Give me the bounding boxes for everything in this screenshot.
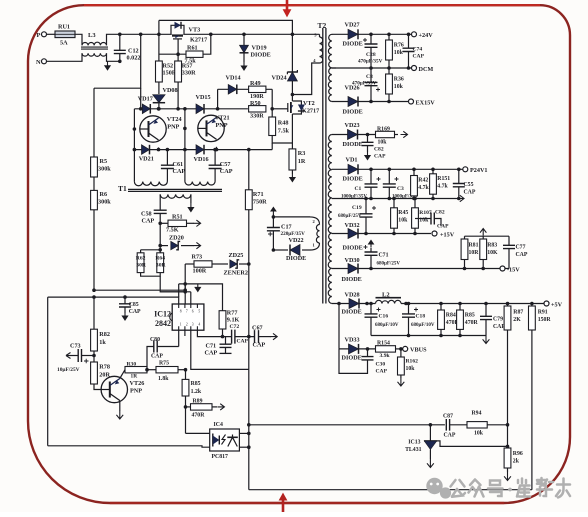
svg-text:470R: 470R [192,413,206,419]
resistor R162 10k [400,349,402,357]
svg-text:C55: C55 [464,182,474,188]
capacitor C67 CAP [255,330,259,343]
terminal VBUS [396,348,401,350]
T1 winding a [134,182,167,186]
wire L3 top to main rail [107,34,120,45]
capacitor C12 0.022 [119,34,121,50]
svg-text:680µF/25V: 680µF/25V [338,214,362,219]
capacitor C28 470uF/35V [370,34,372,44]
arrow after R89 [217,404,224,410]
svg-text:R57: R57 [182,63,193,70]
svg-text:2K: 2K [513,317,521,323]
resistor R64 30R [157,253,164,273]
transistor VT2 K2717 (MOSFET) [292,101,301,114]
svg-text:3.9k: 3.9k [380,353,391,359]
svg-text:150R: 150R [538,317,552,323]
wire R6 to IC supply [93,210,95,290]
resistor R51 7.5K [168,220,187,226]
svg-text:7.5K: 7.5K [166,227,179,234]
svg-text:DIODE: DIODE [343,176,363,183]
ground at T1 feedback [190,203,192,208]
EX15V rectifier diode VD26 DIODE [332,101,409,103]
arrow below R96 [507,468,509,472]
svg-text:3: 3 [192,323,194,327]
svg-text:VD32: VD32 [345,222,360,229]
resistor R30 1R [125,367,147,373]
+24V rectifier diode VD27 DIODE [332,33,412,35]
wire fuse to L3 [75,34,82,45]
resistor R85 470R [459,304,461,311]
capacitor C8 470uF/35V [370,68,372,82]
IC bottom wire with C72 C67 [197,330,231,336]
svg-text:C17: C17 [281,224,292,231]
svg-text:CAP: CAP [173,168,186,175]
capacitor C3 1000uF/35V [388,169,390,184]
wire +5V tap to VD33 [338,304,340,349]
capacitor C72 CAP [232,330,235,344]
resistor R85b 1.2k [182,379,189,396]
svg-text:R94: R94 [472,411,482,417]
wire drive to R71 [248,150,250,370]
resistor R75 1.8k [156,367,178,373]
diode VD19 snubber [243,34,245,45]
svg-text:L3: L3 [88,32,96,39]
resistor R94 10k [467,422,487,428]
watermark text 公众号·崔帮办 [451,478,571,498]
svg-text:CAP: CAP [444,433,456,439]
svg-text:8: 8 [180,310,182,314]
terminal +24V [412,32,417,37]
wire main rail to R5 feed [94,34,141,88]
svg-text:0.022: 0.022 [127,55,141,62]
resistor R42 4.7k [413,169,415,175]
svg-text:PNP: PNP [167,124,179,131]
svg-text:R85: R85 [465,313,475,319]
svg-text:6: 6 [192,310,194,314]
svg-text:5A: 5A [60,40,68,47]
svg-text:7: 7 [186,310,188,314]
svg-text:EX15V: EX15V [416,99,436,106]
svg-text:330R: 330R [182,70,196,77]
svg-text:C30: C30 [376,362,386,368]
svg-text:C80: C80 [150,337,160,343]
watermark logo [426,478,451,499]
svg-text:CAP: CAP [129,309,141,315]
terminal DCM [412,66,417,71]
return wire R62 R64 to IC [141,273,161,277]
svg-text:4.7k: 4.7k [418,185,429,191]
svg-text:CAP: CAP [237,339,249,345]
svg-text:C77: C77 [516,245,526,251]
wire R73 to IC box [184,264,186,284]
wire L3 bottom to C12 [107,53,120,61]
svg-text:C73: C73 [70,343,81,350]
resistor R57 330R [177,54,179,61]
T2 secondary winding lower [328,135,332,304]
resistor R6 300k [93,177,95,190]
svg-text:R89: R89 [193,399,203,405]
svg-text:DIODE: DIODE [343,41,363,48]
arrow after C67 [270,333,277,339]
IC12 inner loop [179,284,223,311]
svg-text:P24V1: P24V1 [470,167,488,174]
transistor VT24 PNP [140,116,166,142]
svg-text:R169: R169 [377,127,390,133]
svg-text:10k: 10k [406,366,416,372]
svg-text:VD1: VD1 [346,157,358,164]
svg-text:R6: R6 [100,191,108,198]
svg-text:CAP: CAP [493,324,505,330]
svg-text:30R: 30R [136,263,147,269]
svg-text:1R: 1R [298,158,306,165]
capacitor C71 CAP at IC [225,337,227,345]
diode VD21 [142,145,150,155]
resistor R49 190R [249,86,266,92]
ground below R162 [400,375,402,378]
svg-text:VD19: VD19 [252,45,267,52]
diode VD16 [196,145,204,155]
transistor VT3 K2717 (MOSFET) [171,25,184,34]
svg-text:R84: R84 [446,313,456,319]
svg-text:VD16: VD16 [194,156,209,163]
svg-text:TL431: TL431 [405,447,422,453]
resistor R78 20R [91,362,98,384]
svg-text:C85: C85 [129,302,139,308]
svg-text:IC13: IC13 [408,440,420,446]
wire VT3 gate to R61 [177,39,179,54]
resistor R3 1R [289,149,296,170]
svg-text:CAP: CAP [464,190,476,196]
arrow above C17 [272,210,274,215]
resistor R81 10R [464,236,466,239]
capacitor C57 CAP [214,150,216,166]
diode VD32 DIODE [332,233,431,235]
svg-text:R49: R49 [250,80,261,87]
terminal -15V [500,266,505,271]
svg-text:C82: C82 [374,147,384,153]
svg-text:DIODE: DIODE [342,276,362,283]
svg-text:C82: C82 [435,210,445,216]
capacitor C77 CAP [508,236,510,245]
terminal +15V [432,231,437,236]
wire R57 down to cell wire [177,82,179,109]
svg-text:2: 2 [186,323,188,327]
svg-text:VD15: VD15 [196,94,211,101]
svg-text:ZD20: ZD20 [169,235,184,242]
arrow after R169 [395,134,399,136]
capacitor C74 CAP [408,34,410,48]
drive wire VD14 R49 [218,88,273,90]
capacitor C17 220uF/35V [272,214,274,228]
resistor R52 150R [156,61,163,82]
resistor R83 10K [482,236,484,239]
svg-text:R75: R75 [159,360,169,366]
svg-text:2k: 2k [513,459,520,465]
resistor R89 470R [191,404,213,410]
wire N to L3 bottom [47,53,83,61]
resistor R87 2K [507,304,509,307]
svg-text:VBUS: VBUS [410,347,427,354]
capacitor C61 CAP [166,150,168,166]
return rail with arrow [332,198,456,200]
capacitor C73 10uF/25V [93,351,95,362]
svg-text:-15V: -15V [507,266,520,273]
svg-text:1k: 1k [99,339,106,346]
svg-text:C3: C3 [397,186,404,192]
svg-text:680µF/25V: 680µF/25V [377,262,401,267]
resistor R151 4.7k [432,169,434,174]
svg-text:2842: 2842 [155,319,171,328]
capacitor C71 680uF/25V [370,255,372,268]
resistor R77 9.1K [219,311,226,329]
svg-text:7.5k: 7.5k [278,128,290,135]
svg-text:VD21: VD21 [139,156,154,163]
wire R48 to source node [272,136,292,144]
svg-text:VT26: VT26 [130,380,145,387]
wire R77 bottom [222,329,224,337]
svg-text:680µF/10V: 680µF/10V [411,323,435,328]
wire R87 down to feedback [507,330,509,448]
diode VD28 DIODE [332,303,376,305]
resistor R48 7.5k [269,117,276,136]
diode VD30 DIODE [332,268,509,270]
svg-text:C18: C18 [416,314,426,320]
gate node wire VT2 [271,89,273,117]
capacitor C85 CAP [124,297,126,304]
svg-text:VD28: VD28 [345,292,360,299]
svg-text:R36: R36 [394,77,404,83]
svg-text:VD26: VD26 [345,85,360,92]
resistor R36 10k [388,68,390,74]
resistor R45 10k [393,199,395,208]
svg-text:DIODE: DIODE [343,109,363,116]
svg-text:R64: R64 [155,256,165,262]
svg-text:R73: R73 [192,254,203,261]
svg-text:VD17: VD17 [138,96,153,103]
ground rail under +5V filters [371,335,486,337]
wire VCC to IC12 [94,289,185,291]
svg-text:R85: R85 [191,381,201,387]
wire to opto pin1 [186,432,210,434]
wire IC pin to R62 return [190,292,192,304]
svg-text:R76: R76 [394,43,404,49]
T1 core [128,189,222,191]
ground below VT26 [119,401,121,412]
svg-text:10k: 10k [474,431,484,437]
resistor R61 7.5k [186,51,203,57]
T2 primary pin4 wire [292,63,319,95]
feedback top wire to C87 [249,424,445,426]
ground below TL431 [427,459,434,468]
T2 core [323,28,326,304]
arrow after ZD20 [194,242,201,248]
svg-text:VD23: VD23 [345,122,360,129]
capacitor C30 CAP [367,349,369,357]
svg-text:DIODE: DIODE [286,255,306,262]
cell top wire VT24/VT21 [134,108,248,110]
svg-text:1.8k: 1.8k [158,376,169,382]
capacitor C80 CAP [147,347,154,370]
svg-text:R3: R3 [298,150,306,157]
svg-text:1: 1 [180,323,182,327]
svg-text:680µF/10V: 680µF/10V [375,323,399,328]
wire C17 top to T2 aux pin2 [273,216,310,218]
T1 feedback winding [160,194,191,198]
svg-text:CAP: CAP [376,369,388,375]
zener VD08 [158,82,160,94]
svg-text:C19: C19 [352,205,362,211]
svg-text:+24V: +24V [419,32,434,39]
ground at L3 [107,61,109,66]
svg-text:10K: 10K [487,250,498,256]
TL431 reference wire [437,441,508,447]
svg-text:IC4: IC4 [214,422,223,428]
transistor VT21 PNP [198,115,224,141]
svg-text:DIODE: DIODE [342,355,362,362]
svg-text:5: 5 [198,310,200,314]
arrow above R83 [480,229,486,236]
svg-text:VD30: VD30 [345,257,360,264]
svg-text:P: P [37,32,41,39]
resistor R73 100R [185,263,194,265]
svg-text:DIODE: DIODE [342,309,362,316]
ground below C82 [367,152,369,156]
terminal P24V1 [463,167,468,172]
wire R61 to drain node [203,34,211,54]
svg-text:R82: R82 [99,331,110,338]
svg-text:R45: R45 [398,210,408,216]
capacitor C87 CAP [446,419,449,431]
wire R75 node down [184,330,186,336]
svg-text:R151: R151 [437,176,450,182]
svg-text:VT3: VT3 [189,27,201,34]
cell left rail VT21 [184,109,186,182]
svg-text:R154: R154 [377,341,390,347]
svg-text:470µF/35V: 470µF/35V [358,59,383,65]
svg-text:1.2k: 1.2k [191,389,202,395]
svg-text:CAP: CAP [374,154,386,160]
svg-text:R30: R30 [127,361,137,367]
svg-text:ZENER2: ZENER2 [224,270,248,277]
svg-text:VT2: VT2 [303,100,315,107]
svg-text:C16: C16 [379,314,389,320]
svg-text:R71: R71 [253,191,264,198]
opto LED [212,434,214,447]
diode VD23 DIODE [332,134,395,136]
capacitor C18 680uF/10V [408,304,410,314]
diode VD1 DIODE [332,168,463,170]
svg-text:470R: 470R [465,320,479,326]
svg-text:DIODE: DIODE [343,141,363,148]
svg-text:R96: R96 [513,451,523,457]
svg-text:IC12: IC12 [154,310,171,319]
svg-text:C12: C12 [128,48,139,55]
svg-text:PC817: PC817 [212,454,229,460]
svg-text:C72: C72 [230,324,240,330]
resistor R5 300k [93,88,95,157]
svg-text:ZD25: ZD25 [229,252,244,259]
svg-text:C71: C71 [206,343,217,350]
cell left rail VT24 [133,109,135,182]
shunt regulator IC13 TL431 [429,423,433,427]
opto lightning mark [222,435,226,445]
terminal EX15V [409,99,414,104]
svg-text:300k: 300k [98,199,111,206]
collector wire to R30 [120,370,125,379]
svg-text:4: 4 [198,323,200,327]
svg-text:R162: R162 [406,359,419,365]
svg-text:10µF/25V: 10µF/25V [57,367,80,373]
svg-text:VT24: VT24 [167,116,182,123]
svg-text:30R: 30R [156,263,167,269]
svg-text:C71: C71 [379,253,389,259]
resistor R76 10k [388,34,390,40]
ground below VD19 [243,62,245,66]
svg-text:+15V: +15V [440,231,455,238]
svg-text:T2: T2 [318,21,327,30]
svg-text:K2717: K2717 [302,108,319,115]
resistor R84 470R [440,304,442,311]
control box left edge [47,297,49,446]
svg-text:R81: R81 [469,243,479,249]
capacitor C79 CAP [485,304,487,317]
capacitor C58 CAP [154,210,167,213]
red arrow bottom (feedback marker) [282,501,285,513]
svg-text:10k: 10k [394,84,404,90]
svg-text:PNP: PNP [130,388,142,395]
T1 winding b [185,182,215,186]
capacitor C82 CAP [367,135,369,143]
opto loop left vertical [248,369,250,489]
svg-text:K2717: K2717 [190,37,207,44]
svg-text:C74: C74 [413,47,423,53]
svg-text:DIODE: DIODE [343,245,363,252]
fuse RU1 5A [55,31,75,38]
svg-text:DCM: DCM [419,66,434,73]
svg-text:CAP: CAP [516,252,528,258]
terminal +5V [544,301,549,306]
DCM rail wire [332,67,412,69]
top wire R81 R83 [465,235,510,237]
svg-text:R52: R52 [163,63,174,70]
arrow after R51 [194,220,201,226]
svg-text:VD08: VD08 [163,87,178,94]
resistor R96 2k [504,448,511,468]
svg-text:10k: 10k [394,50,404,56]
capacitor C19 680uF/25V [365,199,367,214]
svg-text:VD27: VD27 [345,22,360,29]
svg-text:C1: C1 [355,186,362,192]
capacitor C16 680uF/10V [370,304,372,314]
svg-text:100R: 100R [193,268,207,275]
svg-text:PNP: PNP [216,122,228,129]
svg-text:VD33: VD33 [345,337,360,344]
svg-text:330R: 330R [250,113,264,120]
svg-text:R61: R61 [187,45,198,52]
capacitor C82 CAP at +15V [415,218,431,220]
svg-text:C79: C79 [493,317,503,323]
svg-text:R5: R5 [100,158,108,165]
+5V rail wire [401,303,544,305]
resistor R169 10k [376,131,395,137]
ground at IC12 ref [197,284,199,288]
svg-text:R62: R62 [136,256,146,262]
svg-text:R50: R50 [250,100,261,107]
svg-text:R42: R42 [418,178,428,184]
cell bottom wire [134,149,272,151]
transistor VT26 PNP [94,384,101,390]
svg-text:9.1K: 9.1K [227,317,240,324]
